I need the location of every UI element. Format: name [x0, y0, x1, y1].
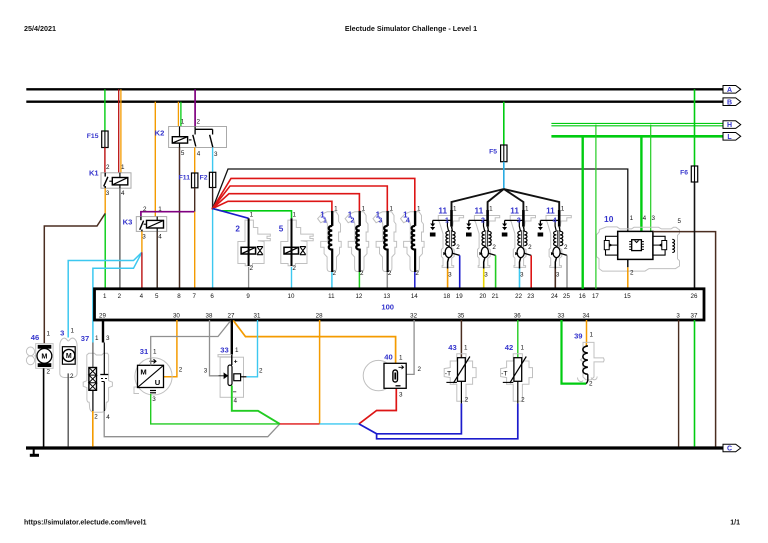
svg-text:11: 11: [438, 206, 447, 215]
wire K1 pin1 to bus A (red+orange pair): [118, 89, 120, 173]
comp10 left block: [606, 236, 618, 255]
svg-text:40: 40: [384, 353, 392, 362]
pump 3 body: [60, 338, 77, 377]
svg-text:3: 3: [448, 272, 452, 279]
comp10 right block: [653, 236, 665, 255]
svg-text:2: 2: [249, 265, 253, 272]
svg-text:2: 2: [70, 373, 74, 380]
svg-text:−: −: [233, 389, 237, 396]
node B: [723, 98, 741, 106]
wire F6 to pin26 (black): [694, 182, 696, 289]
svg-text:2: 2: [564, 244, 568, 251]
comp 37 sender: [103, 343, 105, 375]
svg-text:2: 2: [197, 119, 201, 126]
ignition coil 1/3: [373, 212, 397, 272]
wire comp40 pin3 (red): [359, 388, 396, 424]
wire pin31 to comp33 pin2 (cyan): [246, 320, 257, 377]
svg-text:8: 8: [177, 293, 181, 300]
relay K1: [101, 173, 131, 188]
svg-text:2: 2: [292, 265, 296, 272]
COP coil 11/2: [474, 216, 499, 268]
svg-text:1: 1: [103, 293, 107, 300]
svg-text:4: 4: [106, 414, 110, 421]
wire pin33 to comp39 pin2 (green): [562, 320, 587, 384]
svg-text:M: M: [66, 353, 72, 360]
svg-text:18: 18: [443, 293, 450, 300]
svg-text:1: 1: [293, 211, 297, 218]
injector 2 body: [238, 220, 270, 266]
svg-text:1: 1: [390, 206, 394, 213]
wire fan node to connector pin6 (cyan): [212, 209, 214, 289]
svg-text:13: 13: [383, 293, 390, 300]
svg-text:2: 2: [492, 244, 496, 251]
wire pin27 to comp31 pin1 (gray): [151, 321, 231, 366]
svg-text:34: 34: [583, 312, 590, 319]
connector 100 box: [95, 289, 705, 320]
svg-text:28: 28: [316, 312, 323, 319]
wire K3 pin3 (orange): [141, 231, 143, 252]
svg-text:31: 31: [254, 312, 261, 319]
svg-text:3: 3: [106, 190, 110, 197]
wire K3 junction to connector pin4 (red): [141, 252, 143, 288]
comp 39 coil: [585, 343, 587, 346]
wire K1 pin4 to connector pin2 (dark gray): [119, 188, 121, 289]
svg-text:37: 37: [81, 334, 89, 343]
wire K3 junction to pump 3 pin1 (cyan): [68, 252, 142, 337]
wire pin17 to bus H (green): [595, 125, 597, 289]
fuse F5: [501, 145, 507, 162]
wire comp33 pin4 to junction (green): [232, 386, 280, 424]
svg-text:3: 3: [152, 396, 156, 403]
wire injector 5 pin2 to pin10 (cyan): [291, 267, 293, 289]
svg-text:20: 20: [479, 293, 486, 300]
svg-text:4: 4: [140, 293, 144, 300]
svg-text:2: 2: [94, 413, 98, 420]
svg-text:F5: F5: [489, 149, 497, 156]
svg-text:5: 5: [678, 218, 682, 225]
svg-text:1: 1: [334, 206, 338, 213]
svg-text:U: U: [155, 378, 161, 387]
bus H (double green): [551, 122, 723, 124]
wire K3 junction to comp37 pin1 (cyan): [93, 252, 142, 342]
svg-text:2: 2: [143, 206, 147, 213]
svg-text:K2: K2: [155, 129, 165, 138]
svg-text:10: 10: [604, 214, 614, 224]
node K1-3 junction to connector pin1 (green): [104, 213, 106, 288]
comp10 ic symbol: [632, 240, 642, 251]
svg-text:3: 3: [204, 367, 208, 374]
svg-text:1: 1: [445, 218, 449, 225]
svg-text:2: 2: [350, 218, 354, 225]
ground symbol: [33, 450, 35, 455]
svg-text:36: 36: [514, 312, 521, 319]
svg-text:1: 1: [323, 218, 327, 225]
svg-text:1: 1: [464, 344, 468, 351]
svg-text:5: 5: [181, 150, 185, 157]
svg-text:1: 1: [95, 335, 99, 342]
wire fan to coil 1/4 (red): [213, 178, 415, 212]
svg-text:B: B: [727, 99, 732, 106]
bus L: [551, 135, 723, 138]
svg-text:2: 2: [332, 270, 336, 277]
wire comp37 pin4 to sensor junction (gray): [104, 411, 280, 437]
wire pin35 to comp43 pin1 (brown): [460, 320, 462, 358]
node H: [723, 121, 741, 129]
wire K2 pin3 to F2 (cyan): [212, 148, 214, 173]
fuse F2: [209, 172, 215, 187]
svg-text:2: 2: [235, 225, 240, 234]
svg-text:M: M: [140, 368, 146, 377]
wire comp10 pin3 to bus H (green): [650, 125, 652, 232]
wire fan to injector 5 pin1 (green): [213, 209, 292, 219]
ignition coil 1/1: [318, 212, 342, 272]
svg-text:F11: F11: [179, 175, 191, 182]
svg-text:2: 2: [415, 270, 419, 277]
wire comp10 pin2 stub (black): [627, 259, 629, 267]
relay K2: [169, 127, 227, 148]
wire F15 to bus A (green): [104, 89, 106, 131]
wire comp10 pin2 to pin15 (orange): [627, 267, 629, 289]
wire comp10 pin5 to ground (brown): [653, 232, 716, 447]
svg-text:1: 1: [250, 211, 254, 218]
svg-text:K1: K1: [89, 168, 99, 177]
injector 5 body: [281, 220, 313, 266]
svg-text:2: 2: [481, 218, 485, 225]
svg-text:2: 2: [360, 270, 364, 277]
svg-text:2: 2: [630, 269, 634, 276]
svg-text:25/4/2021: 25/4/2021: [24, 24, 56, 33]
bus A: [26, 88, 723, 90]
svg-text:4: 4: [197, 150, 201, 157]
wire F11 to purple junction (brown): [194, 188, 196, 212]
comp 37 heater coil: [92, 343, 94, 368]
ignition coil 1/4: [401, 212, 425, 272]
svg-text:1: 1: [399, 354, 403, 361]
svg-text:24: 24: [551, 293, 558, 300]
ground bus C: [26, 446, 723, 449]
svg-text:2: 2: [388, 270, 392, 277]
wire pin32 to comp40 pin2 (gray): [406, 320, 414, 374]
wire F15 to K1 pin2 (red): [104, 148, 106, 173]
svg-text:39: 39: [574, 332, 582, 341]
temp sensor 43: [444, 354, 476, 402]
svg-text:9: 9: [246, 293, 250, 300]
svg-text:11: 11: [510, 206, 519, 215]
wire junction to connector pin7 (orange): [194, 212, 196, 289]
svg-text:M: M: [41, 352, 47, 361]
svg-text:2: 2: [465, 396, 469, 403]
svg-text:1: 1: [181, 119, 185, 126]
motor 46 body: [36, 344, 53, 369]
svg-text:30: 30: [173, 312, 180, 319]
svg-text:2: 2: [589, 381, 593, 388]
svg-text:1: 1: [47, 330, 51, 337]
svg-text:1: 1: [590, 332, 594, 339]
svg-text:1: 1: [630, 215, 634, 222]
svg-text:1: 1: [362, 206, 366, 213]
wire K3 pin2 purple link: [141, 212, 195, 217]
svg-text:3: 3: [142, 234, 146, 241]
svg-text:17: 17: [592, 293, 599, 300]
wire pin28 drop to comp40 node (cyan): [320, 423, 359, 425]
svg-text:37: 37: [691, 312, 698, 319]
comp 33 outline: [220, 357, 243, 397]
wire black fan to COP coils: [452, 189, 504, 215]
wire K2 pin4 to F11 (orange): [194, 148, 196, 174]
svg-text:3: 3: [652, 215, 656, 222]
svg-text:3: 3: [520, 272, 524, 279]
comp10 outline: [597, 227, 680, 271]
wire node to comp43 pin2 (blue): [359, 403, 462, 433]
svg-text:21: 21: [492, 293, 499, 300]
svg-text:1/1: 1/1: [730, 520, 740, 527]
svg-text:33: 33: [558, 312, 565, 319]
svg-text:7: 7: [192, 293, 196, 300]
COP coil 11/3: [510, 216, 535, 268]
wire pin29 to comp37 pin3 (black): [102, 320, 104, 343]
comp 40 body: [363, 360, 393, 390]
comp 33 piezo element: [228, 365, 232, 386]
svg-text:F15: F15: [87, 133, 99, 140]
wire K2 pin1 to bus B (orange+green pair): [177, 102, 179, 127]
svg-text:1: 1: [561, 206, 565, 213]
svg-text:-T: -T: [445, 371, 451, 378]
svg-text:2: 2: [106, 164, 110, 171]
svg-text:3: 3: [484, 272, 488, 279]
svg-text:C: C: [727, 446, 732, 453]
wire K1 pin3 (orange): [104, 188, 106, 213]
wire comp10 pin4 to bus L (green): [640, 136, 642, 231]
svg-text:A: A: [727, 87, 732, 94]
relay K3: [136, 217, 166, 232]
svg-text:4: 4: [121, 190, 125, 197]
svg-text:5: 5: [155, 293, 159, 300]
wire F6 to bus A (green): [694, 89, 696, 166]
wire comp37 pin2 to ground (orange): [92, 411, 94, 447]
wire F2 to fan node (dark): [212, 188, 214, 209]
svg-text:3: 3: [517, 218, 521, 225]
svg-text:11: 11: [546, 206, 555, 215]
svg-text:2: 2: [259, 367, 263, 374]
wire junction to motor 46 pin1 (brown): [44, 213, 105, 343]
wire comp31 pin3 to junction (green): [151, 394, 280, 424]
svg-text:46: 46: [31, 333, 39, 342]
svg-text:38: 38: [206, 312, 213, 319]
svg-text:1: 1: [520, 344, 524, 351]
svg-text:3: 3: [214, 151, 218, 158]
wire fan to coil 1/2 (red): [213, 194, 360, 212]
svg-text:3: 3: [60, 328, 64, 337]
svg-text:1: 1: [158, 206, 162, 213]
svg-text:4: 4: [643, 215, 647, 222]
wire pin16 to bus L (green): [582, 136, 584, 288]
node fan junction: [211, 207, 213, 209]
wire fan to coil 1/1 (red): [213, 201, 332, 212]
svg-text:43: 43: [448, 343, 456, 352]
wire pump 3 pin2 to ground (dark gray): [67, 373, 69, 446]
wire injector 2 pin2 to pin9 (gray): [248, 267, 250, 289]
wire K2 pin5 to connector pin8 (brown): [179, 148, 181, 289]
comp 31 body: [135, 358, 172, 395]
node A: [723, 86, 741, 94]
bus B: [26, 101, 723, 103]
svg-text:3: 3: [399, 391, 403, 398]
comp10 main box: [618, 231, 653, 259]
COP coil 11/4: [546, 216, 571, 268]
wire fan to comp10 pin1 (black): [213, 169, 628, 231]
svg-text:27: 27: [228, 312, 235, 319]
svg-text:4: 4: [553, 218, 557, 225]
svg-text:15: 15: [624, 293, 631, 300]
svg-text:2: 2: [521, 396, 525, 403]
wire fan to coil 1/3 (red): [213, 186, 388, 212]
svg-text:1: 1: [525, 206, 529, 213]
wire pin38 to comp33 pin3 (gray): [210, 320, 219, 376]
svg-text:F6: F6: [680, 170, 688, 177]
svg-text:4: 4: [234, 397, 238, 404]
svg-text:10: 10: [288, 293, 295, 300]
wire pin34 to comp39 pin1 (orange): [586, 320, 588, 343]
svg-text:6: 6: [210, 293, 214, 300]
svg-text:H: H: [727, 122, 732, 129]
svg-text:2: 2: [456, 244, 460, 251]
svg-text:16: 16: [579, 293, 586, 300]
COP coil 11/1: [438, 216, 463, 268]
svg-text:2: 2: [118, 293, 122, 300]
wire junction to pin28 drop (red): [280, 423, 320, 425]
wire pin27 to comp40 pin1 (orange): [233, 321, 395, 364]
node C: [723, 444, 741, 452]
svg-text:5: 5: [279, 225, 284, 234]
svg-text:11: 11: [328, 293, 335, 300]
svg-text:1: 1: [71, 328, 75, 335]
svg-text:3: 3: [676, 312, 680, 319]
svg-text:1: 1: [153, 349, 157, 356]
svg-text:33: 33: [220, 346, 228, 355]
svg-text:29: 29: [99, 312, 106, 319]
svg-text:F2: F2: [200, 175, 208, 182]
svg-text:22: 22: [515, 293, 522, 300]
svg-text:https://simulator.electude.com: https://simulator.electude.com/level1: [24, 520, 147, 527]
svg-text:12: 12: [355, 293, 362, 300]
wire K3 pin4 to connector pin5 (dark brown): [156, 231, 158, 288]
temp sensor 42: [501, 354, 533, 402]
svg-text:26: 26: [691, 293, 698, 300]
svg-text:42: 42: [505, 343, 513, 352]
svg-text:3: 3: [106, 335, 110, 342]
svg-text:32: 32: [410, 312, 417, 319]
wire pin30 to comp31 pin2 (orange): [164, 320, 177, 377]
svg-text:4: 4: [406, 218, 410, 225]
fuse F11: [192, 173, 198, 188]
svg-text:1: 1: [453, 206, 457, 213]
svg-text:14: 14: [411, 293, 418, 300]
wire pin28 (orange): [319, 320, 321, 424]
wire pin37 to ground (green): [694, 320, 696, 447]
svg-text:2: 2: [418, 366, 422, 373]
svg-text:100: 100: [381, 303, 394, 312]
svg-text:K3: K3: [123, 218, 133, 227]
wire pin3 to ground (brown): [678, 320, 680, 447]
wire motor 46 pin2 to ground (black): [43, 368, 45, 446]
fuse F6: [691, 166, 697, 182]
wire K3 pin1 to bus B (orange): [154, 102, 156, 217]
wire pin36 to comp42 pin1 (green): [517, 320, 519, 358]
comp 39 body: [581, 342, 605, 380]
wire F5 to black fan (cyan): [503, 162, 505, 189]
svg-text:2: 2: [47, 369, 51, 376]
node L: [723, 133, 741, 141]
svg-text:2: 2: [179, 367, 183, 374]
svg-text:L: L: [727, 134, 732, 141]
svg-text:4: 4: [158, 234, 162, 241]
ignition coil 1/2: [345, 212, 369, 272]
svg-text:25: 25: [563, 293, 570, 300]
svg-text:3: 3: [378, 218, 382, 225]
svg-text:Electude Simulator Challenge -: Electude Simulator Challenge - Level 1: [345, 24, 477, 33]
svg-text:19: 19: [456, 293, 463, 300]
wire comp31 pin1 stub (gray): [150, 358, 152, 366]
motor 46 fan blades: [26, 347, 34, 356]
wire branch to comp42 pin2 (blue): [377, 403, 518, 438]
svg-text:11: 11: [474, 206, 483, 215]
svg-text:23: 23: [527, 293, 534, 300]
svg-text:31: 31: [140, 347, 149, 356]
svg-text:35: 35: [457, 312, 464, 319]
wire F5 to bus B (green): [503, 102, 505, 145]
svg-text:1: 1: [121, 164, 125, 171]
wire pin27 to comp33 pin1 (black): [231, 320, 233, 355]
fuse F15: [102, 131, 108, 148]
svg-text:1: 1: [235, 347, 239, 354]
comp 37 outline: [83, 353, 112, 412]
svg-text:1: 1: [417, 206, 421, 213]
wire K2 pin2 to bus A (purple): [194, 89, 196, 126]
svg-text:+: +: [234, 358, 238, 365]
svg-text:1: 1: [489, 206, 493, 213]
svg-text:2: 2: [528, 244, 532, 251]
wire fan to injector 2 pin1 (blue): [213, 209, 249, 219]
svg-text:3: 3: [556, 272, 560, 279]
svg-text:-T: -T: [501, 371, 507, 378]
